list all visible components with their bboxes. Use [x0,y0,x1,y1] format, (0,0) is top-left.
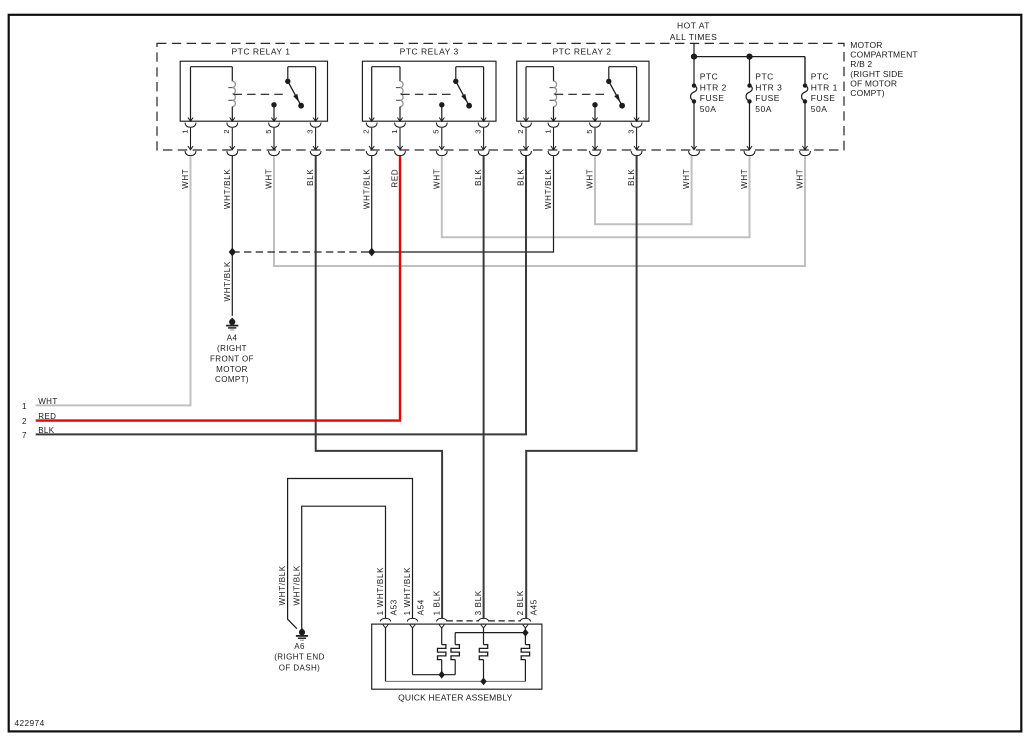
svg-text:WHT/BLK: WHT/BLK [223,261,232,301]
svg-text:RED: RED [38,412,56,421]
svg-text:3: 3 [305,129,314,134]
svg-text:BLK: BLK [517,169,526,186]
svg-text:5: 5 [264,129,273,134]
svg-text:BLK: BLK [306,169,315,186]
svg-text:5: 5 [585,129,594,134]
svg-text:2: 2 [22,417,27,426]
svg-text:FUSE: FUSE [700,93,725,103]
svg-text:1: 1 [22,402,27,411]
svg-text:PTC RELAY 3: PTC RELAY 3 [400,47,459,57]
svg-text:COMPT): COMPT) [215,375,249,384]
svg-text:1 BLK: 1 BLK [432,590,441,615]
svg-text:1: 1 [390,129,399,134]
svg-text:FUSE: FUSE [811,93,836,103]
svg-text:WHT/BLK: WHT/BLK [223,169,232,209]
svg-text:WHT: WHT [265,169,274,189]
svg-text:3 BLK: 3 BLK [474,590,483,615]
svg-text:WHT: WHT [740,169,749,189]
svg-text:HOT AT: HOT AT [677,21,710,31]
svg-text:A54: A54 [417,599,426,615]
svg-text:WHT: WHT [586,169,595,189]
svg-text:422974: 422974 [15,718,45,728]
svg-text:HTR 1: HTR 1 [811,82,838,92]
svg-text:50A: 50A [700,104,717,114]
svg-text:3: 3 [473,129,482,134]
svg-text:2: 2 [222,129,231,134]
svg-text:5: 5 [432,129,441,134]
svg-text:BLK: BLK [627,169,636,186]
svg-text:PTC: PTC [700,72,719,82]
svg-text:PTC RELAY 1: PTC RELAY 1 [231,47,290,57]
svg-text:7: 7 [22,431,27,440]
svg-text:3: 3 [626,129,635,134]
svg-text:WHT: WHT [682,169,691,189]
svg-text:2: 2 [362,129,371,134]
svg-text:(RIGHT END: (RIGHT END [274,653,325,662]
svg-text:WHT/BLK: WHT/BLK [292,565,301,605]
svg-text:R/B 2: R/B 2 [850,59,872,69]
svg-text:PTC RELAY 2: PTC RELAY 2 [552,47,611,57]
svg-text:1: 1 [543,129,552,134]
svg-text:A53: A53 [390,599,399,615]
svg-text:COMPT): COMPT) [850,88,884,98]
svg-text:WHT: WHT [38,397,57,406]
svg-text:1 WHT/BLK: 1 WHT/BLK [376,567,385,616]
svg-text:RED: RED [391,169,400,188]
svg-text:ALL TIMES: ALL TIMES [670,32,718,42]
svg-text:WHT/BLK: WHT/BLK [278,565,287,605]
svg-text:HTR 3: HTR 3 [755,82,782,92]
svg-text:1 WHT/BLK: 1 WHT/BLK [403,567,412,616]
svg-text:50A: 50A [755,104,772,114]
svg-text:FRONT OF: FRONT OF [210,354,254,363]
svg-text:HTR 2: HTR 2 [700,82,727,92]
svg-text:BLK: BLK [38,426,55,435]
svg-text:BLK: BLK [474,169,483,186]
svg-text:A4: A4 [227,334,238,343]
svg-text:(RIGHT: (RIGHT [217,344,247,353]
svg-text:50A: 50A [811,104,828,114]
svg-text:FUSE: FUSE [755,93,780,103]
svg-text:QUICK HEATER ASSEMBLY: QUICK HEATER ASSEMBLY [398,692,513,702]
svg-text:WHT: WHT [432,169,441,189]
svg-text:MOTOR: MOTOR [216,365,248,374]
svg-text:1: 1 [180,129,189,134]
svg-text:WHT/BLK: WHT/BLK [362,169,371,209]
svg-text:COMPARTMENT: COMPARTMENT [850,50,917,60]
svg-text:A6: A6 [294,642,305,651]
svg-text:2: 2 [516,129,525,134]
svg-text:2 BLK: 2 BLK [516,590,525,615]
svg-text:OF DASH): OF DASH) [279,663,320,672]
svg-text:WHT/BLK: WHT/BLK [544,169,553,209]
svg-text:WHT: WHT [796,169,805,189]
svg-text:A45: A45 [529,599,538,615]
svg-text:(RIGHT SIDE: (RIGHT SIDE [850,69,903,79]
svg-text:PTC: PTC [811,72,830,82]
svg-text:WHT: WHT [181,169,190,189]
svg-text:OF MOTOR: OF MOTOR [850,78,897,88]
svg-text:MOTOR: MOTOR [850,40,882,50]
svg-text:PTC: PTC [755,72,774,82]
